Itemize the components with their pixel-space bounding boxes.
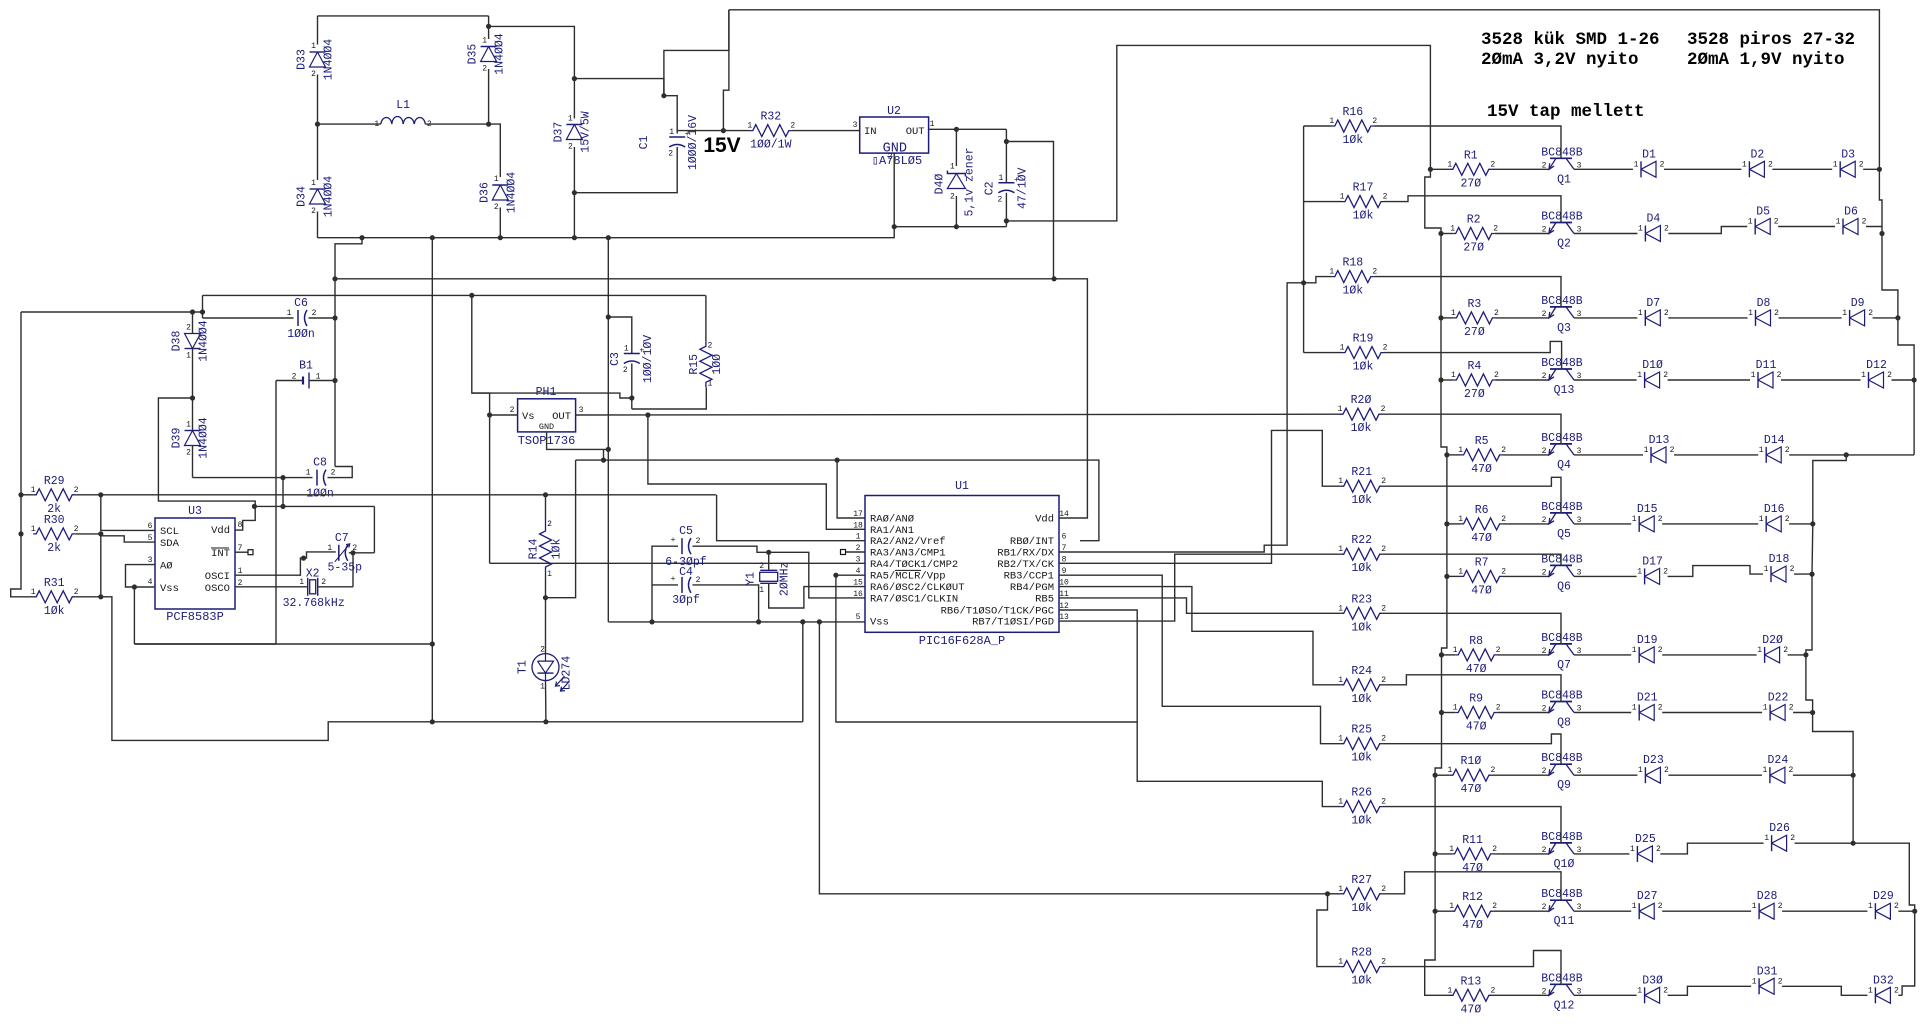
- svg-text:1: 1: [1842, 309, 1847, 318]
- svg-text:2: 2: [1656, 845, 1661, 854]
- svg-text:1: 1: [374, 120, 379, 129]
- svg-text:2: 2: [1789, 704, 1794, 713]
- svg-text:C6: C6: [294, 297, 308, 310]
- svg-text:D3Ø: D3Ø: [1642, 974, 1663, 987]
- resistor R27: [1341, 888, 1383, 900]
- svg-text:R30: R30: [44, 514, 65, 527]
- svg-text:R7: R7: [1475, 556, 1489, 569]
- svg-text:2: 2: [1774, 309, 1779, 318]
- svg-text:1: 1: [1451, 371, 1456, 380]
- svg-text:2: 2: [1494, 309, 1499, 318]
- svg-text:2: 2: [494, 203, 499, 212]
- node C6 branch: [200, 309, 205, 314]
- svg-text:R23: R23: [1351, 593, 1372, 606]
- wire R12 to Q11 emitter: [1494, 910, 1549, 912]
- wire 15V row left part: [677, 130, 750, 132]
- wire V606 gnd vertical: [607, 238, 609, 622]
- svg-text:5: 5: [856, 613, 861, 622]
- svg-text:IN: IN: [864, 126, 877, 138]
- resistor R31: [33, 591, 75, 603]
- svg-text:2: 2: [1381, 798, 1386, 807]
- wire top 15V rail: [729, 10, 1880, 170]
- svg-text:D1Ø: D1Ø: [1642, 359, 1663, 372]
- svg-text:1: 1: [930, 120, 935, 129]
- svg-text:R1Ø: R1Ø: [1461, 755, 1482, 768]
- svg-text:D5: D5: [1756, 206, 1770, 219]
- svg-text:2: 2: [668, 150, 673, 159]
- wire Q9 collector to diodes: [1574, 774, 1637, 776]
- svg-text:2: 2: [1777, 371, 1782, 380]
- node rail row Q2: [1438, 231, 1443, 236]
- wire R14/T1 riser: [546, 460, 576, 598]
- resistor R16: [1304, 125, 1332, 127]
- wire row1 end: [1863, 168, 1879, 170]
- svg-text:2: 2: [1381, 735, 1386, 744]
- svg-text:Vdd: Vdd: [1035, 514, 1054, 526]
- wire R18 out to Q3 base: [1374, 277, 1561, 307]
- svg-text:D3: D3: [1841, 148, 1855, 161]
- svg-text:1: 1: [1338, 885, 1343, 894]
- wire PH1 OUT net: [576, 413, 1341, 416]
- svg-text:Q6: Q6: [1557, 580, 1571, 593]
- transistor Q3 BC848B: [1550, 306, 1572, 308]
- svg-text:2: 2: [547, 520, 552, 529]
- svg-text:1: 1: [1868, 986, 1873, 995]
- svg-text:1Øk: 1Øk: [44, 605, 65, 618]
- wire RB7 to R22: [1059, 554, 1341, 621]
- wire C7.2: [349, 552, 375, 554]
- wire GND rail under U2: [894, 226, 1006, 228]
- wire gnd drop vertical: [431, 238, 433, 722]
- node B1 plus: [332, 378, 337, 383]
- diode D37 15V/5W: [573, 79, 575, 119]
- svg-text:2: 2: [1542, 516, 1547, 525]
- svg-text:3528 kük SMD 1-26: 3528 kük SMD 1-26: [1481, 30, 1660, 50]
- svg-text:R24: R24: [1351, 665, 1372, 678]
- svg-text:1: 1: [311, 179, 316, 188]
- wire right rail r9-r10: [1852, 775, 1854, 843]
- svg-text:R9: R9: [1469, 693, 1483, 706]
- svg-text:1N4ØØ4: 1N4ØØ4: [198, 320, 211, 362]
- svg-text:BC848B: BC848B: [1541, 432, 1583, 445]
- svg-text:4: 4: [148, 578, 153, 587]
- svg-text:2: 2: [1542, 903, 1547, 912]
- diode D36: [489, 124, 501, 177]
- svg-text:2: 2: [1372, 268, 1377, 277]
- svg-text:47/1ØV: 47/1ØV: [1016, 168, 1029, 210]
- svg-text:1: 1: [306, 469, 311, 478]
- svg-text:R12: R12: [1462, 891, 1483, 904]
- svg-text:1ØØ: 1ØØ: [711, 354, 724, 375]
- svg-text:D31: D31: [1757, 965, 1778, 978]
- svg-text:R2: R2: [1467, 214, 1481, 227]
- svg-text:D1: D1: [1642, 148, 1656, 161]
- svg-text:18: 18: [853, 521, 863, 530]
- resistor R28: [1341, 961, 1383, 973]
- capacitor C1: [669, 136, 685, 138]
- resistor R4 27Ø: [1453, 374, 1495, 386]
- wire rail to R9: [1442, 712, 1456, 714]
- svg-text:D26: D26: [1769, 822, 1790, 835]
- svg-text:R26: R26: [1351, 787, 1372, 800]
- svg-text:2: 2: [311, 207, 316, 216]
- svg-text:1: 1: [998, 174, 1003, 183]
- svg-text:2: 2: [1664, 225, 1669, 234]
- LED D15: [1638, 516, 1640, 532]
- svg-text:1: 1: [1861, 371, 1866, 380]
- resistor R18: [1304, 277, 1332, 283]
- svg-text:2: 2: [759, 562, 764, 571]
- svg-text:1: 1: [1338, 735, 1343, 744]
- wire 15V node drop: [723, 10, 729, 131]
- resistor R13 47Ø: [1450, 989, 1492, 1001]
- svg-text:D17: D17: [1642, 555, 1663, 568]
- svg-text:2: 2: [1778, 902, 1783, 911]
- wire row5 end: [1789, 523, 1813, 525]
- diode D34: [317, 124, 319, 180]
- wire Vdd node rail: [254, 505, 374, 507]
- svg-text:2: 2: [1664, 309, 1669, 318]
- svg-text:RA1/AN1: RA1/AN1: [870, 525, 914, 537]
- wire right rail r1-r2: [1879, 169, 1882, 226]
- node rail row Q8: [1439, 710, 1444, 715]
- svg-text:1: 1: [747, 122, 752, 131]
- svg-text:RA5/MCLR/Vpp: RA5/MCLR/Vpp: [870, 571, 946, 583]
- svg-text:R11: R11: [1462, 834, 1483, 847]
- svg-text:2: 2: [1887, 371, 1892, 380]
- svg-text:1: 1: [186, 352, 191, 361]
- wire C8 to U3 Vdd node: [282, 478, 284, 507]
- node rail row Q5: [1444, 521, 1449, 526]
- wire C2+ to 5V rail: [1006, 142, 1053, 279]
- svg-text:2: 2: [707, 341, 712, 350]
- wire RB6 to R26: [1059, 610, 1341, 807]
- wire R7 to Q6 emitter: [1503, 575, 1549, 577]
- transistor Q11 BC848B: [1550, 899, 1572, 901]
- svg-text:R6: R6: [1475, 504, 1489, 517]
- wire R1 to Q1 emitter: [1492, 168, 1549, 170]
- node OUT branch: [645, 412, 650, 417]
- svg-text:RB3/CCP1: RB3/CCP1: [1004, 571, 1054, 583]
- svg-text:RBØ/INT: RBØ/INT: [1010, 536, 1054, 548]
- svg-text:1: 1: [1453, 646, 1458, 655]
- svg-text:1: 1: [1632, 704, 1637, 713]
- LED D11: [1757, 372, 1759, 388]
- svg-text:Q11: Q11: [1554, 915, 1575, 928]
- svg-text:1: 1: [1340, 344, 1345, 353]
- svg-text:D14: D14: [1764, 434, 1785, 447]
- svg-text:D24: D24: [1768, 754, 1789, 767]
- wire R30 link down to R31 row: [100, 536, 102, 597]
- svg-text:15V/5W: 15V/5W: [579, 111, 592, 153]
- wire Y1 top: [768, 552, 770, 570]
- svg-text:1: 1: [1338, 798, 1343, 807]
- svg-text:C1: C1: [638, 136, 651, 150]
- wire RB2 to R21: [1059, 430, 1341, 563]
- svg-text:Y1: Y1: [745, 572, 758, 586]
- wire A0/Vss gnd line: [134, 643, 432, 645]
- svg-text:PIC16F628A_P: PIC16F628A_P: [919, 634, 1005, 648]
- svg-text:INT: INT: [211, 548, 230, 560]
- resistor R24: [1341, 679, 1383, 691]
- svg-text:R21: R21: [1351, 466, 1372, 479]
- wire row9 end: [1793, 774, 1853, 776]
- svg-text:1: 1: [1751, 371, 1756, 380]
- svg-text:2: 2: [74, 525, 79, 534]
- wire Q4 collector to diodes: [1574, 454, 1643, 456]
- resistor R12 47Ø: [1452, 905, 1494, 917]
- wire RA0 riser: [837, 460, 865, 518]
- wire R31-line riser to Vss line: [802, 622, 804, 722]
- svg-text:47Ø: 47Ø: [1466, 663, 1487, 676]
- svg-text:D21: D21: [1637, 692, 1658, 705]
- svg-text:D32: D32: [1873, 974, 1894, 987]
- svg-text:Q8: Q8: [1557, 717, 1571, 730]
- capacitor C2: [1005, 129, 1007, 141]
- svg-text:2: 2: [1785, 446, 1790, 455]
- svg-text:1: 1: [1762, 766, 1767, 775]
- LED D23: [1644, 767, 1646, 783]
- wire RA5 down: [836, 575, 1137, 722]
- svg-text:1Øk: 1Øk: [1351, 693, 1372, 706]
- wire R27 out to Q11 base: [1383, 872, 1561, 900]
- wire Q6 collector to diodes: [1574, 575, 1637, 577]
- svg-text:47Ø: 47Ø: [1461, 1003, 1482, 1016]
- wire U2 GND down: [893, 153, 895, 227]
- node row6 end: [1809, 572, 1814, 577]
- svg-text:R29: R29: [44, 475, 65, 488]
- svg-text:2: 2: [1663, 371, 1668, 380]
- LED D17: [1644, 568, 1646, 584]
- wire R29 row (SCL net): [75, 494, 716, 496]
- svg-text:2: 2: [1542, 846, 1547, 855]
- svg-text:3: 3: [856, 555, 861, 564]
- svg-text:2: 2: [1490, 160, 1495, 169]
- svg-text:2: 2: [1381, 885, 1386, 894]
- wire row10 end: [1795, 842, 1854, 844]
- resistor R14 10k: [545, 495, 547, 520]
- wire Vs link: [472, 393, 632, 398]
- wire D38 top line: [21, 311, 203, 313]
- svg-text:1: 1: [299, 578, 304, 587]
- wire C6.2 to B1 column: [309, 317, 336, 319]
- resistor R1Ø 47Ø: [1450, 769, 1492, 781]
- LED D16: [1765, 516, 1767, 532]
- svg-text:SCL: SCL: [160, 526, 179, 538]
- diode D33: [317, 16, 319, 45]
- svg-text:1: 1: [311, 42, 316, 51]
- svg-text:1N4ØØ4: 1N4ØØ4: [323, 39, 336, 81]
- svg-text:SDA: SDA: [160, 538, 180, 550]
- svg-text:1: 1: [1338, 604, 1343, 613]
- svg-text:D4Ø: D4Ø: [933, 174, 946, 195]
- svg-text:BC848B: BC848B: [1541, 211, 1583, 224]
- svg-text:T1: T1: [517, 660, 530, 674]
- svg-text:32.768kHz: 32.768kHz: [283, 597, 345, 610]
- node rail row Q1Ø: [1433, 851, 1438, 856]
- LED D8: [1755, 310, 1757, 326]
- svg-text:U2: U2: [887, 105, 901, 118]
- wire rail to R8: [1442, 654, 1456, 656]
- wire R28 out to Q12 base: [1383, 951, 1561, 985]
- svg-text:D39: D39: [171, 428, 184, 449]
- svg-text:1: 1: [1458, 567, 1463, 576]
- svg-text:2: 2: [1381, 958, 1386, 967]
- svg-text:OSCI: OSCI: [205, 571, 230, 583]
- svg-text:8: 8: [238, 521, 243, 530]
- wire R4 to Q13 emitter: [1495, 379, 1549, 381]
- svg-text:C7: C7: [335, 532, 349, 545]
- wire D39 to C8: [193, 477, 313, 479]
- svg-text:6: 6: [148, 522, 153, 531]
- svg-text:LD274: LD274: [561, 656, 574, 691]
- wire U2 OUT: [929, 128, 1007, 130]
- wire right rail r2-r3: [1882, 234, 1898, 318]
- LED D3Ø: [1644, 987, 1646, 1003]
- svg-text:1: 1: [1329, 117, 1334, 126]
- svg-text:15V tap mellett: 15V tap mellett: [1487, 102, 1645, 122]
- svg-text:2: 2: [1542, 161, 1547, 170]
- trimmer capacitor C7 5-35p: [338, 545, 340, 561]
- LED D25: [1636, 846, 1638, 862]
- svg-text:2: 2: [1490, 766, 1495, 775]
- svg-text:1: 1: [1637, 986, 1642, 995]
- LED T1 LD274: [545, 598, 547, 654]
- resistor R30: [33, 528, 75, 540]
- node rail row Q13: [1438, 377, 1443, 382]
- svg-text:Q7: Q7: [1557, 659, 1571, 672]
- svg-text:27Ø: 27Ø: [1464, 388, 1485, 401]
- svg-text:D27: D27: [1637, 890, 1658, 903]
- svg-text:2: 2: [312, 309, 317, 318]
- wire Q13 collector to diodes: [1574, 379, 1637, 381]
- wire PH1 Vs net: [490, 414, 518, 416]
- resistor R32: [750, 125, 792, 137]
- svg-text:2: 2: [1501, 515, 1506, 524]
- svg-text:2: 2: [1862, 218, 1867, 227]
- wire C8.2 to B1+: [328, 467, 353, 478]
- svg-text:47Ø: 47Ø: [1461, 783, 1482, 796]
- node D38-D39: [190, 395, 195, 400]
- svg-text:1: 1: [1742, 160, 1747, 169]
- diode D35: [488, 16, 490, 27]
- wire 5V rail long: [335, 278, 1054, 280]
- node 15V: [721, 128, 726, 133]
- svg-text:1ØØ/1W: 1ØØ/1W: [750, 139, 792, 152]
- wire R21 out to Q5 base: [1383, 477, 1561, 513]
- wire Q11 collector to diodes: [1574, 910, 1631, 912]
- svg-text:D8: D8: [1757, 297, 1771, 310]
- resistor R6 47Ø: [1461, 518, 1503, 530]
- node rail row Q6: [1444, 574, 1449, 579]
- resistor R5 47Ø: [1461, 449, 1503, 461]
- svg-text:2: 2: [1542, 705, 1547, 714]
- wire R24 out to Q8 base: [1383, 675, 1561, 702]
- svg-text:BC848B: BC848B: [1541, 752, 1583, 765]
- svg-text:2: 2: [997, 195, 1002, 204]
- resistor R17: [1304, 201, 1342, 203]
- LED D31: [1758, 978, 1760, 994]
- svg-text:1: 1: [1748, 309, 1753, 318]
- wire B1 minus down: [134, 381, 276, 645]
- wire rail to R1Ø: [1435, 774, 1450, 776]
- svg-text:R25: R25: [1351, 724, 1372, 737]
- svg-text:D11: D11: [1756, 359, 1777, 372]
- svg-text:Q9: Q9: [1557, 779, 1571, 792]
- wire OUT branch to RA1: [648, 415, 865, 529]
- node RA0 riser: [835, 458, 840, 463]
- svg-text:2: 2: [352, 544, 357, 553]
- svg-text:16: 16: [853, 590, 863, 599]
- svg-text:1Øk: 1Øk: [1351, 975, 1372, 988]
- svg-text:1: 1: [1759, 446, 1764, 455]
- svg-text:D38: D38: [171, 331, 184, 352]
- svg-text:2: 2: [1496, 646, 1501, 655]
- resistor R3 27Ø: [1453, 312, 1495, 324]
- wire riser to R15 line: [202, 295, 204, 318]
- svg-text:2: 2: [696, 576, 701, 585]
- resistor R25: [1341, 738, 1383, 750]
- svg-text:47Ø: 47Ø: [1462, 919, 1483, 932]
- svg-text:2: 2: [74, 486, 79, 495]
- svg-text:2: 2: [1658, 902, 1663, 911]
- wire Vs riser: [472, 295, 490, 563]
- wire B1 column: [335, 238, 362, 467]
- svg-text:BC848B: BC848B: [1541, 831, 1583, 844]
- svg-text:27Ø: 27Ø: [1464, 326, 1485, 339]
- svg-text:+: +: [671, 575, 676, 584]
- resistor R20: [1340, 408, 1382, 420]
- LED D3: [1839, 161, 1841, 177]
- svg-text:1: 1: [1449, 902, 1454, 911]
- node C1 top: [661, 93, 666, 98]
- svg-text:D16: D16: [1764, 503, 1785, 516]
- svg-text:47Ø: 47Ø: [1471, 463, 1492, 476]
- svg-text:AØ: AØ: [160, 561, 173, 573]
- svg-text:Q3: Q3: [1557, 322, 1571, 335]
- wire row2 end: [1866, 227, 1882, 234]
- transistor Q13 BC848B: [1550, 368, 1572, 370]
- svg-text:2: 2: [1493, 225, 1498, 234]
- wire row3 end: [1873, 317, 1898, 319]
- wire C1 loop top: [574, 79, 664, 96]
- svg-text:1Øk: 1Øk: [1351, 422, 1372, 435]
- LED D24: [1769, 767, 1771, 783]
- wire PH1 GND: [547, 432, 609, 450]
- LED D32: [1874, 987, 1876, 1003]
- svg-text:47Ø: 47Ø: [1466, 721, 1487, 734]
- transistor Q1Ø BC848B: [1550, 842, 1572, 844]
- node R27 input: [1325, 891, 1330, 896]
- wire R1Ø to Q9 emitter: [1492, 774, 1549, 776]
- wire Vdd node to C7.2: [373, 506, 375, 552]
- wire U3 Vdd stub: [235, 506, 255, 530]
- LED D5: [1754, 219, 1756, 235]
- wire R15 line: [203, 294, 706, 296]
- wire base rail R16-R19: [1303, 126, 1305, 353]
- svg-text:2: 2: [540, 646, 545, 655]
- svg-text:2: 2: [1501, 446, 1506, 455]
- svg-text:2: 2: [568, 143, 573, 152]
- transistor Q7 BC848B: [1550, 643, 1572, 645]
- wire Vdd to 5V rail: [1054, 279, 1087, 518]
- svg-text:1: 1: [1630, 845, 1635, 854]
- svg-text:2: 2: [1490, 986, 1495, 995]
- node gnd drop: [430, 641, 435, 646]
- svg-text:Q1Ø: Q1Ø: [1554, 858, 1575, 871]
- resistor R11 47Ø: [1452, 848, 1494, 860]
- svg-text:1: 1: [494, 175, 499, 184]
